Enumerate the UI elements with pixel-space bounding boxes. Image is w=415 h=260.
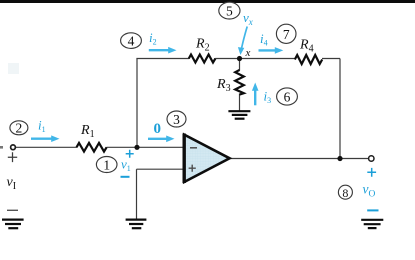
wire: R3 to ground xyxy=(239,94,241,111)
circled node number 5 xyxy=(219,2,240,19)
svg-text:i1: i1 xyxy=(38,118,46,135)
svg-text:vx: vx xyxy=(243,10,253,27)
wire: R1 to op-amp inverting input xyxy=(107,146,185,148)
node junction dot at output xyxy=(337,156,342,161)
wire: R2 to node x xyxy=(215,58,239,60)
svg-text:3: 3 xyxy=(173,112,180,127)
svg-text:R4: R4 xyxy=(299,38,314,55)
circled node number 2 xyxy=(10,121,28,136)
circled node number 7 xyxy=(276,24,296,43)
ground (under R3) xyxy=(228,111,250,119)
input terminal (open circle) xyxy=(11,145,16,150)
current arrow i4 with label xyxy=(259,31,284,54)
wire: right vertical feedback wire xyxy=(339,59,341,159)
wire: R4 to right vertical corner xyxy=(322,58,340,60)
svg-text:R1: R1 xyxy=(80,123,95,140)
svg-text:0: 0 xyxy=(154,121,162,137)
wire: node x down to R3 xyxy=(239,59,241,71)
svg-text:4: 4 xyxy=(128,33,135,48)
faint scan smudge left edge xyxy=(8,63,19,74)
current arrow i1 with label xyxy=(31,118,60,143)
svg-text:R3: R3 xyxy=(216,77,231,94)
svg-text:1: 1 xyxy=(103,157,110,172)
wire: node x to R4 xyxy=(240,58,296,60)
circled node number 3 xyxy=(167,111,186,127)
zero-current arrow into op-amp with label 0 xyxy=(148,121,175,142)
svg-text:vI: vI xyxy=(7,175,17,192)
ground (left, under vI) xyxy=(2,220,24,229)
svg-text:8: 8 xyxy=(342,186,348,200)
label v1 with + and - (cyan) xyxy=(121,150,134,177)
ground (right, under vO) xyxy=(361,220,383,228)
op-amp U1 xyxy=(184,134,229,184)
label vO with + and - (cyan) xyxy=(363,168,379,211)
svg-text:5: 5 xyxy=(226,4,233,19)
svg-text:i4: i4 xyxy=(260,31,268,48)
svg-text:i2: i2 xyxy=(149,30,157,47)
wire: top feedback wire left segment to R2 xyxy=(136,58,189,60)
resistor R1 xyxy=(77,143,107,152)
border frame top bar xyxy=(0,0,415,3)
svg-text:i3: i3 xyxy=(264,89,272,106)
circled node number 1 xyxy=(96,157,117,173)
current arrow i3 with label (up) xyxy=(252,83,271,106)
output terminal (open circle) xyxy=(369,156,374,161)
circled node number 6 xyxy=(277,88,298,105)
ground (center, below op-amp + input) xyxy=(126,220,147,229)
scan mark left edge xyxy=(0,146,3,149)
svg-text:7: 7 xyxy=(283,27,290,42)
circled node number 8 xyxy=(338,185,352,200)
svg-text:R2: R2 xyxy=(195,37,210,54)
wire: op-amp non-inverting input horizontal xyxy=(137,168,185,170)
wire: non-inverting input down to ground xyxy=(136,169,138,219)
node x junction dot xyxy=(237,56,242,61)
resistor R4 xyxy=(295,55,322,64)
svg-text:x: x xyxy=(245,47,251,59)
circled node number 4 xyxy=(121,33,142,49)
label vI with + and - xyxy=(7,152,19,210)
current arrow i2 with label xyxy=(149,30,177,54)
svg-text:2: 2 xyxy=(16,121,23,136)
vx pointer arrow down to node x xyxy=(238,27,247,56)
wire: op-amp output to terminal xyxy=(229,158,369,160)
resistor R2 xyxy=(189,55,216,63)
svg-text:v1: v1 xyxy=(121,157,131,174)
svg-text:vO: vO xyxy=(363,182,376,200)
resistor R3 (vertical) xyxy=(235,70,244,95)
wire: main input wire from terminal to R1 xyxy=(16,146,78,148)
svg-text:6: 6 xyxy=(284,89,291,104)
node junction dot at inverting input xyxy=(134,145,139,150)
wire: left vertical feedback wire xyxy=(136,59,138,148)
